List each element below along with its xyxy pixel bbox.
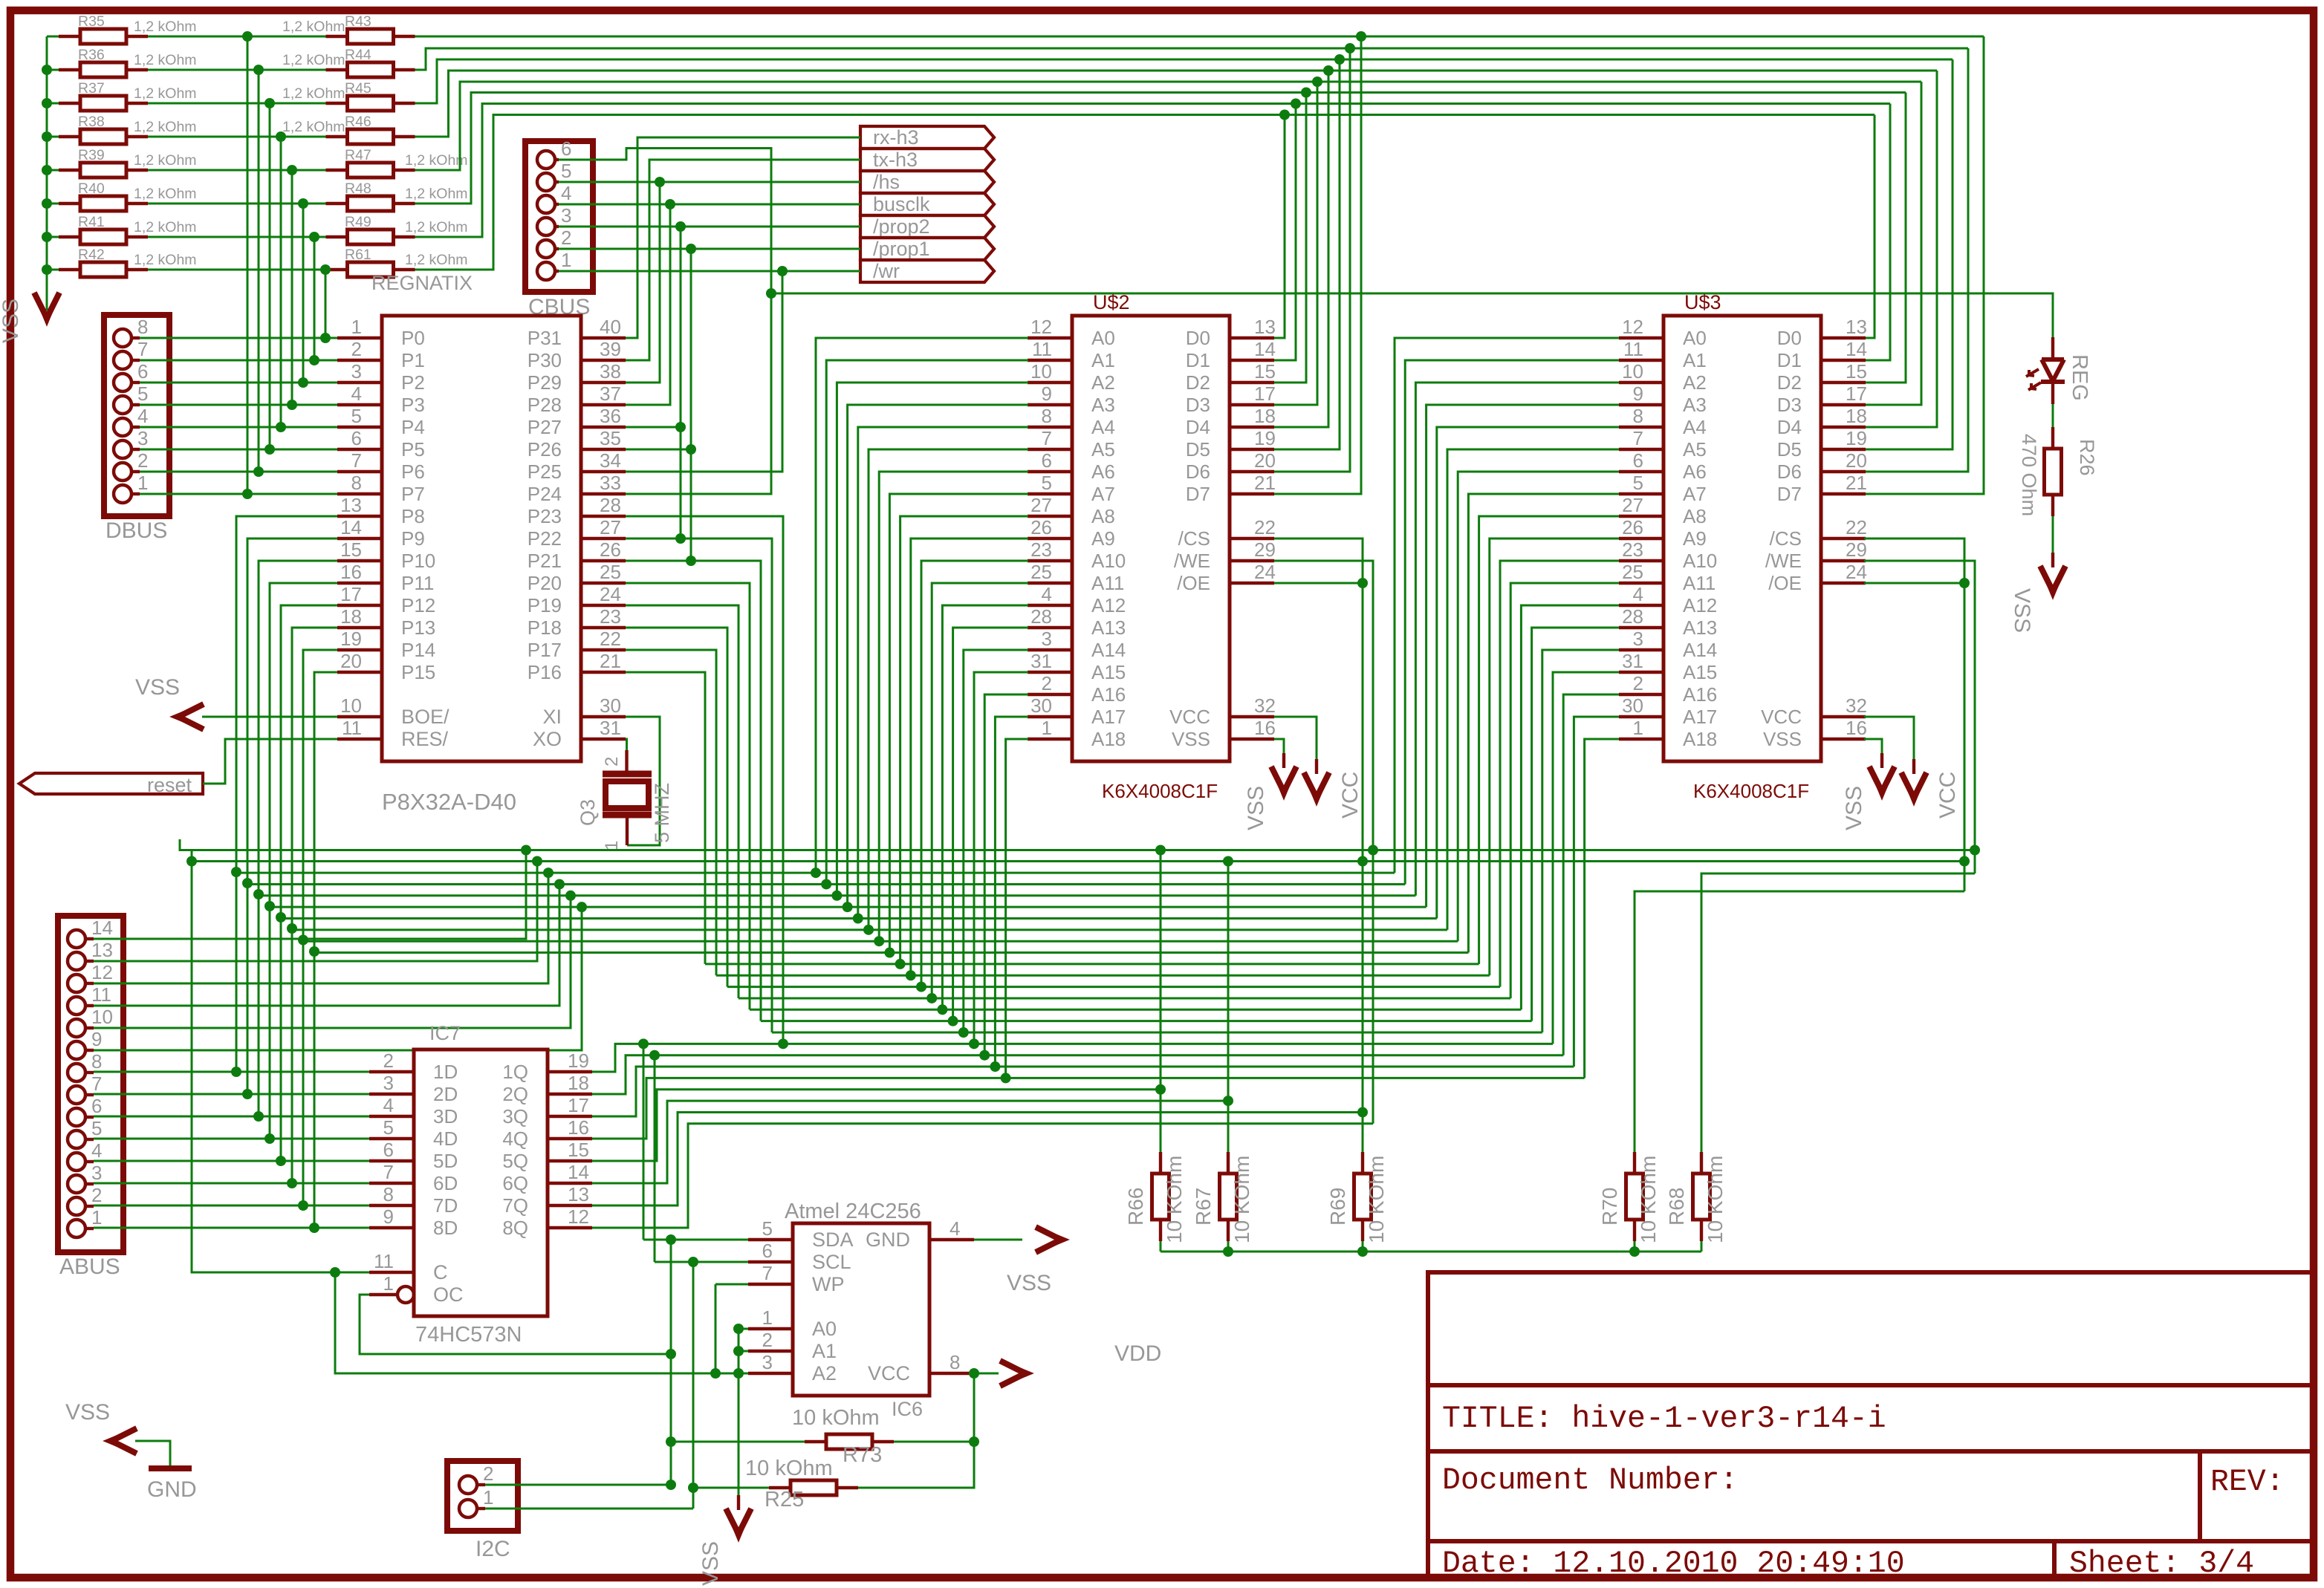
svg-text:3: 3 xyxy=(91,1162,102,1184)
svg-text:9: 9 xyxy=(383,1205,394,1228)
svg-text:A5: A5 xyxy=(1683,438,1707,461)
svg-text:19: 19 xyxy=(1254,427,1276,449)
IC1 pin 22 P17 xyxy=(581,648,626,651)
svg-text:14: 14 xyxy=(91,917,113,939)
U$2 pin 4 A12 xyxy=(1028,604,1072,607)
ABUS pin 7 stub xyxy=(85,1093,94,1096)
svg-text:A2: A2 xyxy=(812,1362,837,1384)
wire riser RR61 row to top line 8 xyxy=(415,115,1875,270)
wire U$3 A10 to col xyxy=(1500,561,1619,987)
IC7 pin 11 C xyxy=(369,1271,414,1274)
svg-text:2: 2 xyxy=(383,1050,394,1072)
junction ABUS9 col on A3 row xyxy=(577,902,587,912)
svg-text:VSS: VSS xyxy=(1172,728,1210,750)
svg-text:VSS: VSS xyxy=(1007,1271,1051,1295)
wire R67 bottom to VSS rail xyxy=(1227,1241,1230,1252)
wire bus row A3 xyxy=(270,906,1426,908)
svg-text:P28: P28 xyxy=(528,394,562,416)
wire R40 left to VSS rail xyxy=(47,203,59,205)
svg-text:23: 23 xyxy=(1030,538,1052,561)
resistor R66 10 KOhm xyxy=(1159,1152,1162,1174)
svg-text:16: 16 xyxy=(1254,717,1276,739)
junction busclk col xyxy=(665,199,675,209)
svg-text:K6X4008C1F: K6X4008C1F xyxy=(1102,780,1218,802)
svg-text:27: 27 xyxy=(600,516,621,538)
CBUS pin 6 circle xyxy=(537,151,555,169)
wire ABUS1 to IC7 8D xyxy=(94,1227,369,1229)
wire ABUS14 to rail /WE xyxy=(94,850,526,940)
svg-text:15: 15 xyxy=(1846,360,1867,383)
wire VSS rail bottom xyxy=(1161,1251,1701,1253)
svg-text:1: 1 xyxy=(602,841,622,850)
wire /prop1 down to P26 xyxy=(690,249,692,561)
junction U$2 /CS col on rail xyxy=(1357,856,1368,867)
resistor R48 xyxy=(326,202,348,205)
VCC arrow U$2 xyxy=(1304,772,1329,798)
svg-text:P9: P9 xyxy=(401,527,425,550)
IC1 pin 21 P16 xyxy=(581,671,626,674)
svg-text:IC7: IC7 xyxy=(429,1022,461,1044)
svg-text:/OE: /OE xyxy=(1768,572,1802,594)
junction VSS rail row R37 xyxy=(42,98,52,108)
svg-text:7: 7 xyxy=(91,1073,102,1095)
wire bus row A10 xyxy=(727,986,1500,988)
svg-text:Sheet: 3/4: Sheet: 3/4 xyxy=(2069,1546,2254,1581)
svg-text:1D: 1D xyxy=(433,1061,458,1083)
svg-text:P11: P11 xyxy=(401,572,434,594)
wire ABUS8 to IC7 1D xyxy=(94,1071,369,1073)
svg-text:16: 16 xyxy=(1846,717,1867,739)
DBUS pin 4 stub xyxy=(132,426,140,429)
junction P23 col on row A15 xyxy=(778,1038,788,1049)
svg-text:P12: P12 xyxy=(401,594,435,616)
svg-text:10 KOhm: 10 KOhm xyxy=(1704,1156,1727,1243)
svg-text:A4: A4 xyxy=(1683,416,1707,438)
U$2 pin 12 A0 xyxy=(1028,336,1072,339)
DBUS pin 5 stub xyxy=(132,403,140,406)
wire R73 right to VDD col xyxy=(894,1441,974,1443)
resistor R73 10 kOhm xyxy=(805,1440,826,1443)
junction R70 on VSS rail xyxy=(1629,1246,1640,1257)
svg-text:3Q: 3Q xyxy=(502,1105,528,1127)
junction P13 col at IC7 6D xyxy=(287,1178,297,1188)
svg-text:6: 6 xyxy=(137,360,148,383)
wire bus row A6 xyxy=(303,940,1458,943)
junction A0 on VSS col xyxy=(733,1324,744,1334)
U$2 pin 9 A3 xyxy=(1028,403,1072,406)
wire U$3 A2 to col xyxy=(1415,383,1619,896)
wire VSS col 994 xyxy=(738,1329,740,1495)
wire U$2 A3 to col xyxy=(848,405,1028,907)
svg-text:16: 16 xyxy=(568,1116,589,1139)
wire bus row A14 xyxy=(772,1032,1542,1034)
wire U$3 A14 to col xyxy=(1542,650,1619,1032)
svg-text:D6: D6 xyxy=(1186,461,1210,483)
ABUS pin 13 stub xyxy=(85,960,94,963)
IC1 pin 3 P2 xyxy=(337,381,382,384)
svg-text:VSS: VSS xyxy=(1842,786,1866,830)
wire P9 to column x=333 xyxy=(247,538,337,1094)
svg-text:OC: OC xyxy=(433,1283,464,1306)
svg-text:D4: D4 xyxy=(1186,416,1210,438)
svg-text:R39: R39 xyxy=(78,147,105,163)
DBUS pin 8 stub xyxy=(132,336,140,339)
IC6 pin 5 SDA xyxy=(748,1238,793,1241)
svg-text:P24: P24 xyxy=(528,483,562,505)
wire R26 to VSS xyxy=(2052,516,2054,553)
svg-text:6: 6 xyxy=(1042,449,1052,472)
U$2 pin 15 D2 xyxy=(1230,381,1274,384)
U$3 pin 25 A11 xyxy=(1619,582,1664,585)
junction /prop1 col xyxy=(686,244,696,254)
svg-text:17: 17 xyxy=(1254,383,1276,405)
svg-text:busclk: busclk xyxy=(873,193,930,215)
wire riser RR47 row to top line 5 xyxy=(415,82,1922,170)
svg-text:A0: A0 xyxy=(1091,327,1115,349)
svg-text:37: 37 xyxy=(600,383,621,405)
svg-text:5 MHZ: 5 MHZ xyxy=(651,783,673,843)
svg-text:8: 8 xyxy=(137,316,148,338)
wire A0 row xyxy=(739,1328,748,1330)
svg-text:I2C: I2C xyxy=(475,1537,510,1561)
svg-text:9: 9 xyxy=(91,1028,102,1050)
wire U$3 A8 to col xyxy=(1479,516,1619,964)
junction P10 col at bus row xyxy=(253,889,264,899)
svg-text:14: 14 xyxy=(340,516,362,538)
svg-text:1,2 kOhm: 1,2 kOhm xyxy=(405,186,468,202)
U$2 pin 1 A18 xyxy=(1028,738,1072,741)
svg-text:VSS: VSS xyxy=(135,675,180,700)
wire col 451 down to A2/VSS row xyxy=(335,1272,715,1373)
svg-text:1,2 kOhm: 1,2 kOhm xyxy=(405,252,468,268)
svg-text:P6: P6 xyxy=(401,461,425,483)
junction P11 col at IC7 4D xyxy=(264,1133,275,1144)
junction SCL on A16 row xyxy=(649,1050,660,1061)
U$2 pin 27 A8 xyxy=(1028,515,1072,518)
U$3 pin 3 A14 xyxy=(1619,648,1664,651)
svg-text:A18: A18 xyxy=(1683,728,1717,750)
svg-text:GND: GND xyxy=(147,1477,197,1502)
top horizontal bus lines (8) R43-R61 to RAM data pins xyxy=(415,36,1984,38)
svg-text:31: 31 xyxy=(600,717,621,739)
wire P13 to column x=393 xyxy=(292,628,337,1183)
IC1 pin 31 XO xyxy=(581,738,626,741)
wire reset to RES/ xyxy=(203,739,337,784)
CBUS pin 4 stub xyxy=(555,203,559,206)
wire U$2 /OE row xyxy=(1274,582,1363,585)
svg-text:2: 2 xyxy=(561,227,571,249)
junction /prop2 col end at P22 row xyxy=(675,533,686,544)
resistor R68 10 KOhm xyxy=(1700,1152,1703,1174)
svg-text:A11: A11 xyxy=(1091,572,1124,594)
svg-text:20: 20 xyxy=(1846,449,1867,472)
ABUS pin 1 circle xyxy=(68,1220,85,1237)
svg-text:P22: P22 xyxy=(528,527,562,550)
wire /wr CBUS1 to flag xyxy=(559,270,860,273)
IC1 pin 15 P10 xyxy=(337,559,382,562)
svg-text:7D: 7D xyxy=(433,1194,458,1217)
svg-text:R45: R45 xyxy=(345,80,371,97)
svg-text:23: 23 xyxy=(600,605,621,628)
svg-text:P4: P4 xyxy=(401,416,425,438)
wire U$2 A12 to col xyxy=(942,605,1028,1009)
junction VDD net xyxy=(969,1368,979,1379)
svg-text:6Q: 6Q xyxy=(502,1172,528,1194)
wire IC7 7Q up to row y=1497 xyxy=(592,1112,1363,1205)
IC7 pin 15 5Q xyxy=(548,1159,592,1162)
wire U$2 A1 to col xyxy=(826,360,1028,884)
U$3 pin 31 A15 xyxy=(1619,671,1664,674)
wire riser RR48 row to top line 6 xyxy=(415,93,1906,204)
wire IC7 5Q up to row y=1467 xyxy=(592,1090,1161,1161)
svg-text:31: 31 xyxy=(1030,650,1052,672)
wire row 1176 to R68 xyxy=(1701,873,1975,1152)
wire U$3 /CS to col 2644 xyxy=(1864,538,1964,891)
junction col2644 on rail /CS xyxy=(1959,856,1970,867)
junction U$2 A16 col on row xyxy=(979,1050,990,1061)
junction VSS rail row R36 xyxy=(42,65,52,75)
IC U$3 K6X4008C1F body xyxy=(1664,316,1821,761)
svg-text:18: 18 xyxy=(340,605,362,628)
svg-text:12: 12 xyxy=(91,961,113,983)
U$3 pin 18 D4 xyxy=(1821,426,1866,429)
wire U$2 A15 to col xyxy=(974,672,1028,1044)
wire ABUS13 to rail /CS xyxy=(94,862,537,962)
wire SDA col up to bus xyxy=(643,1044,645,1240)
svg-text:7: 7 xyxy=(383,1161,394,1183)
IC7 pin 9 8D xyxy=(369,1226,414,1229)
svg-text:1: 1 xyxy=(91,1206,102,1229)
svg-text:5: 5 xyxy=(762,1217,773,1240)
GND symbol xyxy=(149,1465,192,1471)
svg-text:5Q: 5Q xyxy=(502,1150,528,1172)
wire LED to R26 xyxy=(2052,404,2054,428)
wire R68 bottom to VSS rail xyxy=(1701,1241,1703,1252)
IC7 pin 19 1Q xyxy=(548,1070,592,1073)
junction /prop1 at P26 row xyxy=(686,444,696,455)
svg-text:P14: P14 xyxy=(401,639,435,661)
svg-text:VCC: VCC xyxy=(1935,772,1960,819)
wire U$2 A10 to col xyxy=(921,561,1028,987)
svg-text:4: 4 xyxy=(1633,583,1643,605)
net flag /prop1 xyxy=(860,238,994,260)
wire XI to crystal pin1 xyxy=(626,717,660,845)
svg-text:R44: R44 xyxy=(345,47,371,63)
svg-text:REV:: REV: xyxy=(2210,1465,2285,1500)
ABUS pin 6 circle xyxy=(68,1108,85,1126)
svg-text:10 kOhm: 10 kOhm xyxy=(792,1406,880,1430)
wire rx-h3 to P31 xyxy=(626,137,860,338)
CBUS pin 2 circle xyxy=(537,240,555,258)
svg-text:A12: A12 xyxy=(1091,594,1126,616)
U$2 pin 7 A5 xyxy=(1028,448,1072,451)
IC1 pin 38 P29 xyxy=(581,381,626,384)
junction /wr col xyxy=(777,266,788,276)
U$3 pin 26 A9 xyxy=(1619,537,1664,540)
svg-text:R41: R41 xyxy=(78,214,105,230)
svg-text:A7: A7 xyxy=(1091,483,1115,505)
connector ABUS xyxy=(58,916,123,1252)
U$2 pin 25 A11 xyxy=(1028,582,1072,585)
svg-text:1: 1 xyxy=(483,1486,493,1509)
svg-text:/prop1: /prop1 xyxy=(873,238,930,260)
junction row Q5 at pull-up col xyxy=(1155,1084,1166,1095)
svg-text:D1: D1 xyxy=(1186,349,1210,371)
svg-text:D0: D0 xyxy=(1186,327,1210,349)
svg-text:R43: R43 xyxy=(345,13,371,30)
junction U$2 A2 col xyxy=(831,891,842,901)
U$2 pin 20 D6 xyxy=(1230,470,1274,473)
VSS arrow U$2 xyxy=(1271,767,1296,792)
svg-text:P31: P31 xyxy=(528,327,562,349)
svg-text:D7: D7 xyxy=(1777,483,1802,505)
IC1 pin 2 P1 xyxy=(337,359,382,362)
U$2 pin 30 A17 xyxy=(1028,715,1072,718)
svg-text:38: 38 xyxy=(600,360,621,383)
wire U$2 A17 to col xyxy=(995,717,1028,1067)
svg-text:4: 4 xyxy=(950,1217,960,1240)
wire long REG line y=395 to LED column xyxy=(771,293,2053,338)
svg-text:A0: A0 xyxy=(1683,327,1707,349)
junction R69 on VSS rail xyxy=(1357,1246,1368,1257)
junction U$2 A18 col on row xyxy=(1001,1073,1011,1083)
U$3 pin 11 A1 xyxy=(1619,359,1664,362)
svg-text:REGNATIX: REGNATIX xyxy=(371,272,473,294)
wire busclk down to P28 xyxy=(626,204,670,405)
svg-text:P8X32A-D40: P8X32A-D40 xyxy=(382,789,516,815)
wire R37 left to VSS rail xyxy=(47,102,59,105)
svg-text:R70: R70 xyxy=(1598,1188,1621,1226)
junction P11 col at bus row xyxy=(264,901,275,911)
wire P18 to col x=979 down to bus row A10 xyxy=(626,628,727,987)
svg-text:P7: P7 xyxy=(401,483,425,505)
DBUS pin 7 stub xyxy=(132,359,140,362)
ABUS pin 9 circle xyxy=(68,1041,85,1059)
svg-text:WP: WP xyxy=(812,1273,845,1295)
wire R70 bottom VSS rail xyxy=(1634,1241,1636,1252)
junction R73 right on VDD col xyxy=(969,1436,979,1447)
svg-text:13: 13 xyxy=(1846,316,1867,338)
IC1 pin 16 P11 xyxy=(337,582,382,585)
IC7 pin 13 7Q xyxy=(548,1204,592,1207)
svg-text:1,2 kOhm: 1,2 kOhm xyxy=(134,119,197,135)
U$2 pin 2 A16 xyxy=(1028,693,1072,696)
svg-text:34: 34 xyxy=(600,449,621,472)
wire P11 to column x=363 xyxy=(270,583,337,1139)
svg-text:35: 35 xyxy=(600,427,621,449)
svg-text:D1: D1 xyxy=(1777,349,1802,371)
wire WP col down to VSS row xyxy=(715,1284,717,1373)
net flag tx-h3 xyxy=(860,149,994,171)
svg-text:D0: D0 xyxy=(1777,327,1802,349)
wire R39 left to VSS rail xyxy=(47,169,59,172)
svg-text:30: 30 xyxy=(1030,694,1052,717)
wire DBUS pin 3 to P5 xyxy=(140,449,337,451)
IC7 pin 1 OC xyxy=(397,1286,414,1303)
svg-text:14: 14 xyxy=(1846,338,1867,360)
wire row R45 from R37 to R45 xyxy=(148,102,326,105)
svg-text:6: 6 xyxy=(383,1139,394,1161)
U$2 pin 26 A9 xyxy=(1028,537,1072,540)
DBUS pin 2 circle xyxy=(114,463,132,481)
wire U$2 A11 to col xyxy=(932,583,1028,998)
svg-text:A9: A9 xyxy=(1683,527,1707,550)
wire R36 left to VSS rail xyxy=(47,69,59,71)
U$2 pin 22 /CS xyxy=(1230,537,1274,540)
junction col x=348 at P6 row xyxy=(253,466,264,477)
IC1 pin 7 P6 xyxy=(337,470,382,473)
svg-text:rx-h3: rx-h3 xyxy=(873,126,919,149)
svg-text:1,2 kOhm: 1,2 kOhm xyxy=(134,219,197,235)
svg-text:GND: GND xyxy=(866,1229,910,1251)
junction U$2 A7 col xyxy=(884,948,895,958)
U$3 pin 30 A17 xyxy=(1619,715,1664,718)
junction P9 col at IC7 2D xyxy=(242,1089,253,1099)
svg-text:A5: A5 xyxy=(1091,438,1115,461)
svg-text:/WE: /WE xyxy=(1765,550,1802,572)
svg-text:12: 12 xyxy=(568,1205,589,1228)
wire IC7 1Q up to bus row A15 xyxy=(592,1044,1553,1072)
svg-text:A14: A14 xyxy=(1091,639,1126,661)
ABUS pin 12 stub xyxy=(85,982,94,985)
wire DBUS pin 5 to P3 xyxy=(140,404,337,406)
svg-text:A16: A16 xyxy=(1683,683,1717,706)
svg-text:22: 22 xyxy=(1846,516,1867,538)
svg-text:2: 2 xyxy=(137,449,148,472)
IC1 pin 24 P19 xyxy=(581,604,626,607)
junction U$2 A4 col xyxy=(853,914,863,924)
wires U$2 D0-D7 up to top bus xyxy=(1274,115,1285,339)
ABUS pin 13 circle xyxy=(68,952,85,970)
wire ABUS3 to IC7 6D xyxy=(94,1182,369,1185)
resistor R70 10 KOhm xyxy=(1633,1152,1636,1174)
IC7 pin 3 2D xyxy=(369,1093,414,1096)
IC1 pin 20 P15 xyxy=(337,671,382,674)
wire U$3 A18 to col xyxy=(1585,739,1619,1078)
U$3 pin 5 A7 xyxy=(1619,492,1664,495)
svg-text:26: 26 xyxy=(1622,516,1643,538)
IC7 pin 12 8Q xyxy=(548,1226,592,1229)
junction col x=363 at P5 row xyxy=(264,444,275,455)
junction P14 col at bus row xyxy=(298,935,308,946)
svg-text:11: 11 xyxy=(91,983,111,1006)
svg-text:P5: P5 xyxy=(401,438,425,461)
svg-text:P20: P20 xyxy=(528,572,562,594)
svg-text:12: 12 xyxy=(1030,316,1052,338)
svg-text:SCL: SCL xyxy=(812,1251,851,1273)
svg-text:12: 12 xyxy=(1622,316,1643,338)
wire U$3 A6 to col xyxy=(1458,472,1619,941)
IC7 pin 8 7D xyxy=(369,1204,414,1207)
resistor R26 470 Ohm xyxy=(2051,427,2054,449)
wire U$3 A13 to col xyxy=(1532,628,1619,1021)
wire BOE/ to VSS arrow xyxy=(202,716,337,718)
U$3 pin 15 D2 xyxy=(1821,381,1866,384)
resistor R44 xyxy=(326,68,348,71)
svg-text:R40: R40 xyxy=(78,180,105,197)
junction U$2 A1 col xyxy=(821,879,831,889)
U$3 pin 23 A10 xyxy=(1619,559,1664,562)
svg-text:1,2 kOhm: 1,2 kOhm xyxy=(134,152,197,169)
IC1 pin 40 P31 xyxy=(581,336,626,339)
junction U$2 /WE col on rail xyxy=(1368,845,1378,856)
CBUS pin 3 stub xyxy=(555,225,559,228)
resistor R61 xyxy=(326,268,348,271)
junction staircase col x=378 row R46 xyxy=(276,131,286,142)
U$3 pin 27 A8 xyxy=(1619,515,1664,518)
svg-text:8: 8 xyxy=(1042,405,1052,427)
resistor R45 xyxy=(326,102,348,105)
